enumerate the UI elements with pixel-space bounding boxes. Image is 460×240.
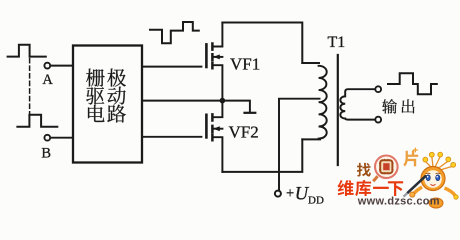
svg-text:DD: DD <box>308 194 324 206</box>
svg-text:B: B <box>41 145 51 161</box>
svg-text:VF2: VF2 <box>229 123 259 142</box>
svg-text:A: A <box>42 72 53 88</box>
svg-text:www.dzsc.com: www.dzsc.com <box>357 195 440 207</box>
svg-text:T1: T1 <box>328 34 346 51</box>
svg-text:VF1: VF1 <box>230 55 260 74</box>
svg-text:+: + <box>286 186 294 202</box>
